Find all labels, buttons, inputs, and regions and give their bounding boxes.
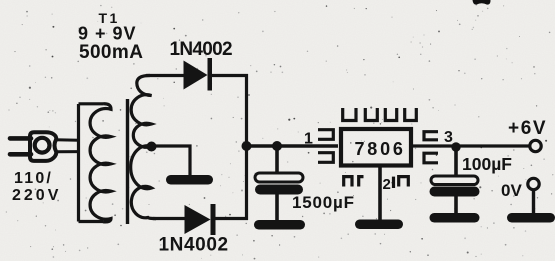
- mains plug P1: [10, 132, 56, 161]
- pin marks above U1: [343, 108, 417, 121]
- capacitor C2 100uF: [454, 147, 458, 177]
- top rail wire: [146, 74, 184, 77]
- svg-text:1N4002: 1N4002: [159, 235, 229, 256]
- svg-text:100µF: 100µF: [462, 154, 512, 174]
- 0V output terminal: [528, 178, 539, 189]
- diode D2 1N4002 (bottom): [185, 205, 211, 234]
- regulator U1 7806: [341, 129, 411, 166]
- node at rectifier output: [242, 141, 252, 151]
- node: secondary centre tap: [147, 142, 157, 152]
- pin 1 bracket marks: [318, 130, 333, 163]
- pin 2 wire: [378, 165, 382, 221]
- transformer T1 secondary winding: [131, 75, 156, 218]
- wire centre tap to ground: [152, 146, 191, 176]
- pin marks below U1: [344, 177, 409, 188]
- svg-text:220V: 220V: [12, 187, 61, 204]
- svg-text:1N4002: 1N4002: [170, 39, 232, 60]
- svg-text:110/: 110/: [14, 170, 53, 187]
- node at C2: [451, 142, 460, 151]
- primary feed wire: [77, 104, 80, 222]
- ground (C1): [254, 220, 305, 230]
- svg-text:7806: 7806: [355, 139, 406, 159]
- ground (C2): [430, 213, 480, 223]
- ground (centre tap): [166, 175, 213, 185]
- svg-text:500mA: 500mA: [79, 42, 143, 63]
- +6V output terminal: [530, 140, 541, 151]
- svg-text:3: 3: [444, 129, 453, 146]
- capacitor C1 1500uF: [275, 146, 279, 174]
- node at C1: [272, 141, 282, 151]
- wire to winding top: [79, 102, 104, 105]
- ground (0V): [507, 213, 555, 223]
- svg-text:0V: 0V: [501, 181, 522, 200]
- transformer T1 primary winding: [90, 104, 111, 222]
- regulator output wire: [411, 144, 529, 147]
- diode D1 1N4002 (top): [184, 61, 208, 90]
- wire to winding bottom: [79, 220, 104, 223]
- svg-text:1500µF: 1500µF: [292, 193, 355, 212]
- plug cord wires: [55, 138, 79, 142]
- wire D2 to node: [214, 217, 248, 220]
- bottom rail wire: [153, 217, 186, 220]
- svg-text:1: 1: [304, 131, 313, 148]
- svg-text:+6V: +6V: [508, 118, 547, 139]
- ground (pin 2): [355, 220, 403, 230]
- partial printed glyph at top edge: [473, 0, 491, 5]
- transformer core: [126, 99, 129, 224]
- DC bus wire to regulator: [247, 144, 339, 148]
- svg-text:9 + 9V: 9 + 9V: [78, 24, 137, 44]
- wire D1 to node: [212, 74, 248, 77]
- svg-text:2: 2: [383, 176, 391, 193]
- rectifier output vertical wire: [245, 74, 248, 220]
- pin 3 bracket marks: [424, 132, 438, 163]
